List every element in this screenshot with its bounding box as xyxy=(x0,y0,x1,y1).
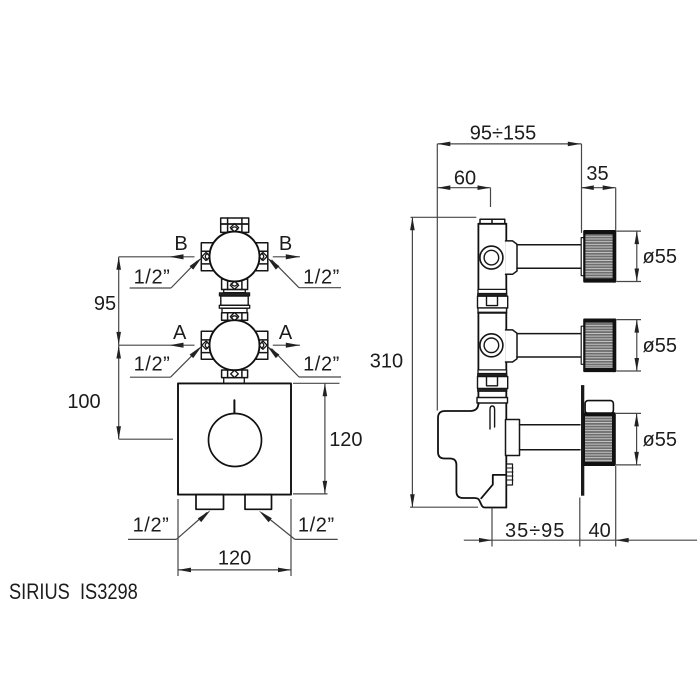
svg-text:B: B xyxy=(279,233,292,255)
svg-text:310: 310 xyxy=(370,350,403,372)
svg-text:120: 120 xyxy=(329,429,362,451)
leader B right xyxy=(299,287,341,289)
coupling A-body xyxy=(477,370,508,403)
valve B screw bottom xyxy=(230,281,238,289)
valve A right flange xyxy=(247,331,268,359)
valve B bottom flange xyxy=(222,279,248,290)
A flow line right xyxy=(273,344,300,346)
svg-text:SIRIUS IS3298: SIRIUS IS3298 xyxy=(9,581,138,605)
boss A xyxy=(506,330,518,362)
svg-text:120: 120 xyxy=(218,547,251,569)
valve B right flange xyxy=(247,243,268,271)
escutcheon A xyxy=(581,326,584,364)
mixer box xyxy=(178,383,291,494)
knob T cap xyxy=(585,401,613,414)
dim o55 T xyxy=(616,412,641,414)
valve B left flange xyxy=(201,243,222,271)
svg-text:35÷95: 35÷95 xyxy=(505,520,565,542)
svg-text:1/2”: 1/2” xyxy=(303,353,340,375)
stem A xyxy=(517,334,581,357)
dim 35-95 and 40 xyxy=(491,509,493,547)
svg-text:1/2”: 1/2” xyxy=(133,515,170,537)
dim 100 line xyxy=(118,345,120,439)
leader A left xyxy=(130,376,171,378)
wall plate xyxy=(581,385,584,496)
valve A screw top xyxy=(230,313,238,321)
dim 95-155 xyxy=(436,144,438,411)
boss diverter xyxy=(506,420,520,456)
svg-text:ø55: ø55 xyxy=(643,335,677,357)
valve A bottom flange xyxy=(222,370,248,378)
knob T xyxy=(584,413,615,465)
valve A top flange xyxy=(222,313,248,321)
knob indicator line xyxy=(233,400,235,413)
dim 95 line xyxy=(118,257,120,345)
dim 60 xyxy=(437,187,490,189)
dim o55 B xyxy=(617,230,642,232)
leader bottom left xyxy=(128,538,176,540)
dim 120 right xyxy=(293,382,340,384)
valve A neck to box xyxy=(224,378,245,384)
valve B body circle xyxy=(210,232,260,282)
svg-text:95: 95 xyxy=(94,293,116,315)
valve B screw left xyxy=(202,252,210,260)
coupling B-A xyxy=(478,289,508,313)
port circle B xyxy=(480,246,503,269)
svg-text:ø55: ø55 xyxy=(643,246,677,268)
dim 35 top xyxy=(582,187,616,189)
B flow line left xyxy=(119,256,195,258)
port circle A xyxy=(480,334,503,357)
valve A screw left xyxy=(202,341,210,349)
svg-text:40: 40 xyxy=(588,520,610,542)
B flow line right xyxy=(273,256,300,258)
A flow line left xyxy=(119,344,195,346)
valve A left flange xyxy=(201,331,222,359)
slot detail xyxy=(490,406,495,429)
leader A right xyxy=(299,376,341,378)
knob B xyxy=(584,231,615,281)
svg-text:1/2”: 1/2” xyxy=(134,267,171,289)
escutcheon B xyxy=(581,238,584,276)
svg-text:100: 100 xyxy=(67,391,100,413)
dim o55 A xyxy=(617,319,642,321)
valve B screw top xyxy=(230,224,238,232)
leader B left xyxy=(130,287,171,289)
svg-text:ø55: ø55 xyxy=(643,429,677,451)
mixer block outline xyxy=(438,403,506,508)
connector pipe B to A xyxy=(219,290,249,313)
svg-text:1/2”: 1/2” xyxy=(298,515,335,537)
bottom port left xyxy=(196,495,224,510)
dim 310 xyxy=(411,216,477,218)
mixer block inner step xyxy=(481,475,506,498)
valve A screw bottom xyxy=(231,370,239,377)
svg-text:1/2”: 1/2” xyxy=(303,267,340,289)
svg-text:60: 60 xyxy=(454,168,476,190)
knob circle xyxy=(209,414,262,467)
dim 120 bottom xyxy=(177,499,179,576)
valve B top cap xyxy=(221,218,249,224)
svg-text:35: 35 xyxy=(586,163,608,185)
valve B top flange xyxy=(221,224,249,232)
svg-text:A: A xyxy=(173,322,187,344)
valve B screw right xyxy=(259,252,267,260)
stem B xyxy=(517,245,581,269)
bottom port right xyxy=(245,495,272,510)
svg-text:A: A xyxy=(279,322,293,344)
svg-text:95÷155: 95÷155 xyxy=(470,123,537,145)
valve A body circle xyxy=(210,320,260,370)
svg-text:B: B xyxy=(174,233,187,255)
ribbed fitting xyxy=(506,464,513,485)
body top cap xyxy=(480,219,505,224)
leader bottom right xyxy=(295,538,338,540)
knob A xyxy=(584,320,615,371)
svg-text:1/2”: 1/2” xyxy=(134,353,171,375)
body column outline xyxy=(478,224,506,508)
valve A screw right xyxy=(259,341,267,349)
boss B xyxy=(506,241,518,274)
stem diverter xyxy=(520,425,581,450)
